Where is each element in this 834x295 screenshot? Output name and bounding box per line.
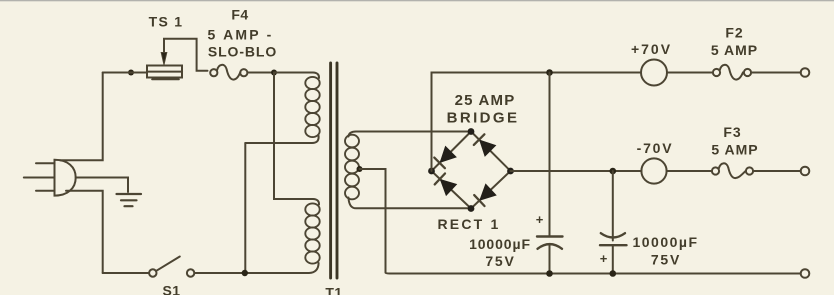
- wire node down to primary winding B: [274, 73, 319, 205]
- svg-text:SLO-BLO: SLO-BLO: [208, 44, 277, 60]
- node: C2 to rail: [610, 270, 617, 277]
- svg-text:F3: F3: [723, 124, 741, 140]
- wire C2 top lead: [612, 171, 614, 241]
- capacitor C2: [600, 233, 627, 245]
- svg-text:T1: T1: [325, 285, 342, 295]
- node: C1 to rail: [546, 270, 553, 277]
- fuse F4: [210, 65, 247, 80]
- node on input wire: [128, 70, 134, 76]
- wire F3 to terminal: [753, 170, 801, 172]
- meter M2 -70V: [641, 158, 666, 183]
- svg-text:10000µF: 10000µF: [469, 236, 531, 252]
- fuse F3: [712, 163, 753, 178]
- plug P1: [24, 160, 76, 196]
- wire bridge + output up to +70V rail: [432, 73, 642, 172]
- wire node to primary top winding: [274, 73, 319, 79]
- wire center tap to common rail: [360, 169, 391, 274]
- ground: [117, 194, 142, 206]
- diode D1 (left-top arm): [434, 147, 455, 168]
- wire secondary bottom to bridge AC2: [349, 198, 472, 209]
- svg-text:F2: F2: [725, 25, 743, 41]
- transformer T1 core: [331, 63, 337, 278]
- transformer T1 primary winding B: [305, 203, 319, 263]
- capacitor C1: [537, 237, 563, 249]
- node: primary return junction: [242, 270, 248, 276]
- thermal switch TS1: [147, 66, 182, 80]
- switch S1: [149, 257, 194, 277]
- svg-text:BRIDGE: BRIDGE: [447, 110, 520, 127]
- wire F2 to terminal: [751, 72, 801, 74]
- bridge corner nodes: [428, 128, 514, 212]
- node: +rail / C1 junction: [546, 69, 553, 76]
- terminal +70V: [801, 68, 810, 77]
- node: -rail / C2 junction: [610, 168, 617, 175]
- node: secondary center tap: [357, 166, 363, 172]
- wire left rail to TS1: [103, 72, 147, 74]
- wire C2 bottom lead: [612, 245, 614, 273]
- svg-text:+: +: [536, 212, 544, 227]
- wire F4 to node: [247, 72, 274, 74]
- svg-text:5 AMP: 5 AMP: [711, 142, 758, 158]
- svg-text:5 AMP -: 5 AMP -: [208, 27, 274, 43]
- wire plug-middle to ground: [76, 178, 128, 193]
- svg-text:-70V: -70V: [637, 140, 674, 156]
- svg-text:RECT 1: RECT 1: [438, 216, 501, 232]
- wire bottom-left rail to switch: [103, 272, 149, 274]
- terminal common: [801, 269, 810, 278]
- svg-text:+70V: +70V: [631, 41, 672, 57]
- svg-text:F4: F4: [231, 7, 248, 23]
- diode D2 (top-right arm): [474, 134, 495, 155]
- wire winding A bottom: [245, 136, 318, 144]
- wire secondary top to bridge AC1: [349, 132, 472, 137]
- svg-text:S1: S1: [162, 283, 180, 295]
- diode D3 (left-bottom arm): [435, 174, 456, 195]
- svg-text:75V: 75V: [485, 253, 515, 269]
- terminal -70V: [801, 167, 810, 176]
- wire switch to winding B bottom: [194, 263, 318, 273]
- svg-text:75V: 75V: [651, 252, 681, 268]
- svg-text:+: +: [600, 251, 608, 266]
- wire plug-top to left rail: [60, 73, 103, 161]
- wire M1 to F2: [667, 72, 713, 74]
- TS1 actuator arrow: [161, 39, 207, 71]
- wire bridge - output to -70V meter: [511, 170, 642, 172]
- common rail to output: [390, 273, 801, 275]
- wire plug-bottom down: [66, 191, 103, 273]
- svg-text:5 AMP: 5 AMP: [711, 42, 758, 58]
- wire C1 bottom lead: [549, 245, 551, 274]
- node: fuse output junction: [271, 70, 277, 76]
- diode D4 (bottom-right arm): [474, 185, 495, 206]
- svg-text:TS 1: TS 1: [149, 14, 184, 30]
- rectifier RECT1 bridge outline: [432, 132, 511, 209]
- meter M1 +70V: [641, 60, 667, 86]
- wire C1 top lead: [549, 73, 551, 236]
- svg-text:10000µF: 10000µF: [632, 234, 698, 250]
- wire M2 to F3: [667, 170, 712, 172]
- transformer T1 primary winding A: [305, 77, 319, 137]
- svg-text:25 AMP: 25 AMP: [455, 92, 516, 109]
- wire vertical to bottom rail: [244, 143, 246, 273]
- fuse F2: [713, 65, 751, 80]
- transformer T1 secondary winding: [345, 135, 359, 200]
